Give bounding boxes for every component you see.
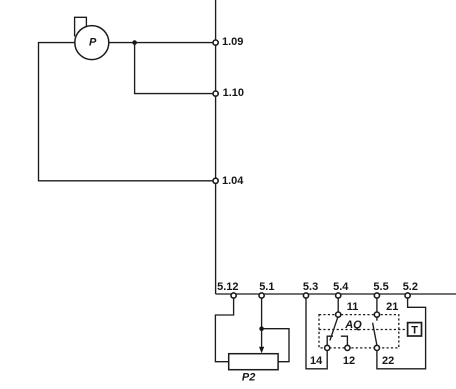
wire 5.4 to contact 11 [337,299,339,313]
relay actuator dashed link to T [319,329,407,331]
node 1.04 [213,175,244,187]
svg-text:1.09: 1.09 [222,36,243,48]
svg-text:1.04: 1.04 [222,175,244,187]
svg-text:5.3: 5.3 [303,281,318,293]
sensor P [75,17,109,59]
wire main vertical trunk [215,0,217,294]
coil T box [408,323,422,337]
svg-text:AQ: AQ [344,319,362,331]
contact pin 12 [343,345,355,367]
node 5.4 [333,281,349,298]
wire 5.3 to contact 14 [306,299,327,369]
contact pin 11 [336,301,359,317]
contact arm 21-22 [373,323,377,345]
wire from junction A down and right to node 1.10 [135,43,213,94]
svg-text:14: 14 [310,355,323,367]
svg-text:P2: P2 [242,371,255,383]
node 5.2 [403,281,418,298]
svg-text:P: P [89,36,97,48]
contact pin 22 [374,345,394,367]
node 5.3 [303,281,318,298]
svg-text:T: T [411,325,418,337]
wire 5.12 to P2 left terminal [215,299,233,362]
potentiometer P2 [229,354,278,384]
wire 5.1 down to junction B [261,299,263,329]
svg-text:11: 11 [347,301,359,313]
svg-text:12: 12 [343,355,355,367]
node 1.10 [213,87,244,99]
relay label AQ [344,319,362,331]
contact arm 11-14 [330,317,338,340]
node 1.09 [213,36,243,48]
contact 14 stub [327,336,333,345]
svg-text:5.5: 5.5 [373,281,388,293]
junction dot B [259,326,264,331]
svg-text:21: 21 [386,301,398,313]
junction dot A [132,40,137,45]
svg-text:1.10: 1.10 [223,87,244,99]
node 5.12 [217,281,238,298]
wire bottom horizontal bus [216,293,456,295]
contact pin 21 [374,301,398,317]
wire from P right side to node 1.09 [109,42,213,44]
wire 5.2 to contact 22 [377,299,426,369]
relay AQ dashed frame [319,315,399,348]
svg-text:5.1: 5.1 [259,281,274,293]
svg-text:5.2: 5.2 [403,281,418,293]
node 5.1 [259,281,274,298]
wire junction B to P2 right terminal [262,329,289,362]
contact 12 stub [341,336,348,345]
wiper arrow into P2 [259,329,264,354]
svg-text:22: 22 [382,355,394,367]
contact pin 14 [310,345,330,367]
contact 21 stub [376,317,378,321]
wire 5.5 to contact 21 [376,299,378,313]
node 5.5 [373,281,388,298]
svg-text:5.4: 5.4 [333,281,349,293]
svg-text:5.12: 5.12 [217,281,238,293]
wire from P left side down to node 1.04 [39,43,214,181]
